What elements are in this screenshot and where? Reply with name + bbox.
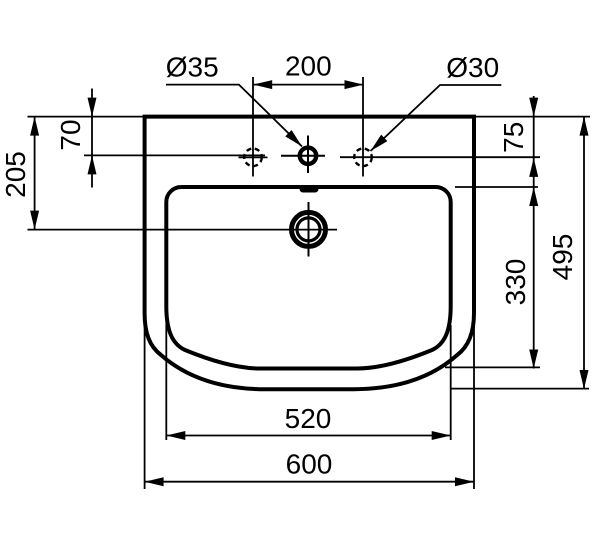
svg-text:Ø35: Ø35 bbox=[166, 52, 219, 83]
dimension 520 line bbox=[166, 435, 450, 437]
dimension 520 arrows bbox=[166, 431, 185, 440]
tap hole center O35 bbox=[300, 148, 316, 164]
drain crosshair vertical bbox=[308, 202, 310, 257]
dimension 205 line bbox=[34, 117, 36, 230]
svg-text:600: 600 bbox=[286, 449, 333, 480]
dashed tap hole left bbox=[244, 149, 262, 167]
dimension 495 line bbox=[583, 117, 585, 389]
tap hole crosshair vertical bbox=[307, 136, 309, 174]
drain axis line bbox=[28, 229, 338, 231]
label O35 leader bbox=[166, 85, 302, 147]
dimension 600 arrows bbox=[145, 477, 164, 486]
extension line inner basin bottom right bbox=[445, 366, 540, 368]
svg-text:70: 70 bbox=[55, 119, 86, 150]
dimension 520 right extension bbox=[450, 325, 452, 440]
dimension 200 line bbox=[253, 84, 363, 86]
svg-text:520: 520 bbox=[285, 403, 332, 434]
dimension 200 arrows bbox=[253, 80, 272, 89]
svg-text:200: 200 bbox=[285, 51, 332, 82]
svg-text:75: 75 bbox=[498, 122, 529, 153]
dashed tap hole right O30 bbox=[354, 149, 372, 167]
dimension 205 arrows bbox=[30, 117, 39, 136]
overflow notch bbox=[300, 186, 319, 193]
dimension 200 right extension bbox=[362, 77, 364, 177]
dimension 495 arrows bbox=[580, 117, 589, 136]
svg-text:205: 205 bbox=[0, 151, 31, 198]
tap hole crosshair horizontal bbox=[281, 155, 325, 157]
svg-text:495: 495 bbox=[547, 234, 578, 281]
dimension 330 arrows bbox=[529, 187, 538, 206]
extension line top edge left bbox=[28, 116, 144, 118]
drain hole inner ring bbox=[297, 218, 320, 241]
dimension 200 left extension bbox=[252, 77, 254, 177]
label O30 leader bbox=[371, 85, 502, 151]
svg-text:330: 330 bbox=[500, 259, 531, 306]
svg-text:Ø30: Ø30 bbox=[446, 52, 499, 83]
extension line top edge right bbox=[476, 116, 590, 118]
drain hole outer ring bbox=[292, 212, 326, 246]
left dashed hole axis line bbox=[239, 156, 268, 158]
dimension 75 arrows bbox=[529, 98, 538, 117]
hole axis line right bbox=[340, 156, 540, 158]
dimension 600 right extension bbox=[473, 320, 475, 489]
outer basin outline bbox=[145, 117, 474, 390]
inner basin outline bbox=[166, 187, 450, 369]
hole axis line left bbox=[84, 154, 265, 156]
dimension 70 line bbox=[91, 89, 93, 188]
extension line inner basin top right bbox=[455, 186, 538, 188]
dimension 75 330 shared line bbox=[533, 96, 535, 369]
dimension 600 left extension bbox=[144, 320, 146, 489]
extension line outer basin bottom right bbox=[450, 388, 589, 390]
dimension 600 line bbox=[145, 481, 474, 483]
dimension 520 left extension bbox=[165, 322, 167, 440]
dimension 70 arrows bbox=[88, 98, 97, 117]
